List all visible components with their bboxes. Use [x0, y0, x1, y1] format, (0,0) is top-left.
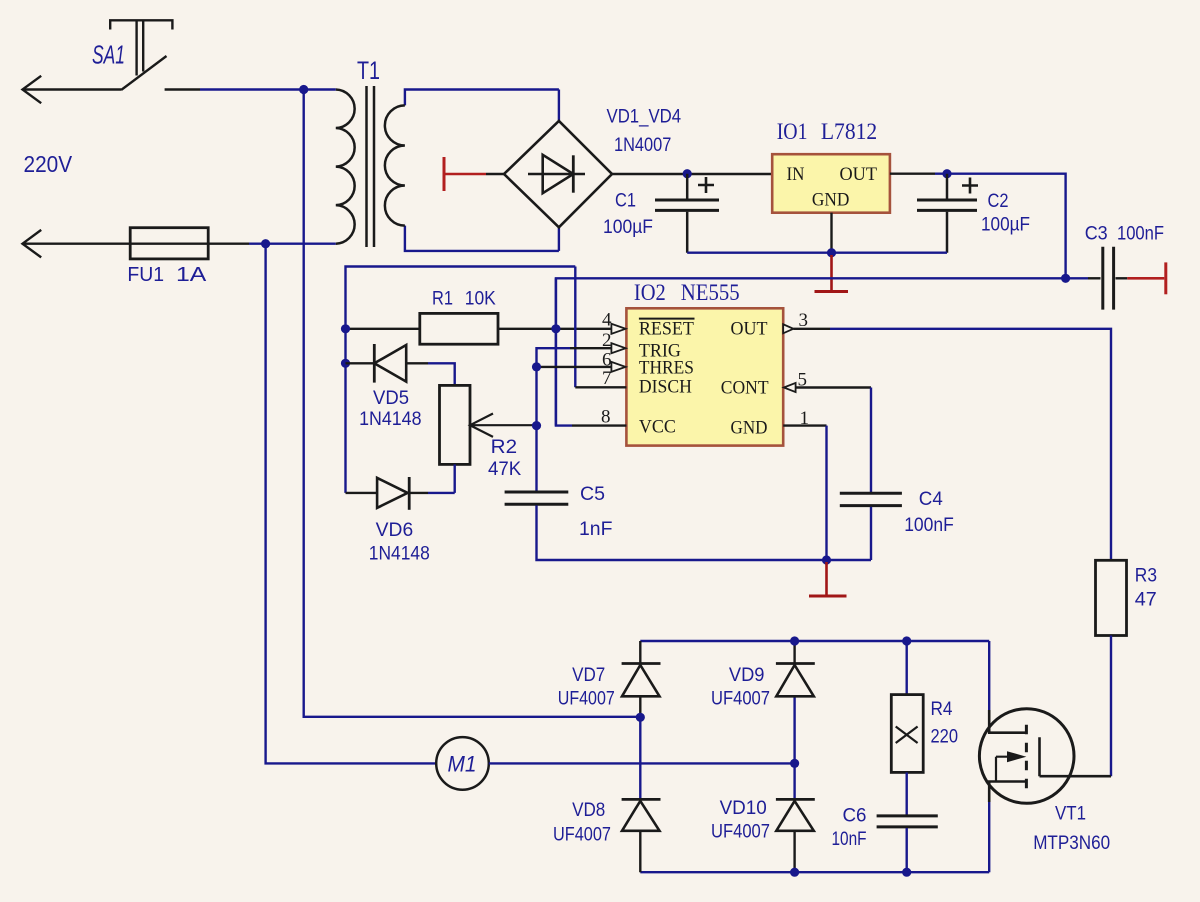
svg-text:DISCH: DISCH — [639, 377, 692, 398]
wire motor bridge top rail — [640, 640, 989, 642]
bridge inner diode wire — [528, 173, 585, 176]
capacitor C4 — [840, 493, 902, 505]
capacitor C1 — [686, 174, 689, 253]
wire VT1 source to bottom rail — [988, 802, 990, 872]
svg-text:100µF: 100µF — [603, 217, 653, 238]
wire vertical live bus — [304, 90, 641, 717]
wire ground rail C1-C2 — [687, 251, 947, 253]
node junction THRES — [532, 362, 541, 371]
wire switch contact — [165, 88, 200, 90]
svg-text:47K: 47K — [488, 459, 522, 480]
node junction AC left leg — [636, 713, 645, 722]
wire DISCH lead — [575, 386, 626, 388]
svg-text:RESET: RESET — [639, 319, 694, 340]
svg-text:GND: GND — [812, 190, 850, 211]
node junction SA1 bus — [299, 85, 308, 94]
svg-text:8: 8 — [601, 407, 611, 428]
svg-text:1nF: 1nF — [579, 519, 613, 540]
svg-text:GND: GND — [731, 418, 768, 439]
potentiometer R2 wiper arrow — [470, 414, 537, 437]
node junction R1 left — [341, 324, 350, 333]
diode VD10 — [776, 798, 815, 801]
wire pin 3 run to R3 — [830, 329, 1111, 561]
wire CONT lead — [796, 386, 871, 388]
node junction pin4/VCC — [551, 324, 560, 333]
ground symbol under 555 rail (red) — [825, 562, 828, 595]
resistor R3 — [1096, 560, 1127, 635]
node junction VD5 left — [341, 359, 350, 368]
svg-text:R4: R4 — [931, 699, 953, 720]
svg-text:OUT: OUT — [731, 319, 768, 340]
svg-text:IO1: IO1 — [777, 119, 808, 144]
svg-text:100nF: 100nF — [1117, 224, 1164, 245]
svg-text:IO2: IO2 — [634, 280, 666, 305]
bridge rectifier VD1_VD4 diamond — [504, 121, 612, 227]
wire TRIG jog — [537, 348, 571, 491]
svg-text:7: 7 — [602, 368, 612, 389]
svg-text:THRES: THRES — [639, 358, 694, 379]
node junction C2 — [942, 169, 951, 178]
svg-text:T1: T1 — [357, 57, 380, 85]
mains arrow left top — [23, 76, 42, 103]
pin 4 arrow — [611, 324, 625, 334]
capacitor C5 — [505, 492, 569, 504]
svg-text:47: 47 — [1135, 590, 1157, 611]
switch SA1 actuator bracket — [110, 20, 172, 75]
wire motor to right leg — [489, 762, 795, 764]
wire fuse to transformer — [249, 242, 336, 244]
regulator IO1 box — [772, 154, 890, 213]
node junction C3 — [1061, 274, 1070, 283]
node junction wiper — [532, 421, 541, 430]
diode VD8 — [622, 798, 661, 801]
svg-text:C2: C2 — [988, 191, 1009, 212]
svg-text:FU1: FU1 — [127, 264, 164, 286]
node junction bottom rail VD10 — [790, 868, 799, 877]
wire R1 right lead to pin 4 — [498, 328, 612, 330]
svg-text:IN: IN — [787, 164, 805, 185]
wire bridge bottom lead — [558, 227, 560, 251]
svg-text:C4: C4 — [919, 489, 943, 510]
transistor VT1 channel (dashed) — [1025, 725, 1028, 789]
ground terminal right of C3 (red) — [1127, 277, 1164, 280]
wire R4 top lead — [906, 641, 908, 695]
transformer T1 primary winding — [336, 90, 355, 244]
node junction top rail VD9 — [790, 636, 799, 645]
svg-text:C5: C5 — [580, 484, 605, 505]
svg-text:220: 220 — [931, 727, 959, 748]
wire TRIG lead — [570, 347, 612, 349]
svg-text:R3: R3 — [1135, 566, 1157, 587]
wire OUT to C3 corner — [935, 174, 1066, 279]
wire R2 bottom to VD6 — [428, 464, 455, 493]
transistor VT1 circle — [979, 709, 1074, 804]
pin 6 arrow — [611, 362, 625, 372]
svg-text:SA1: SA1 — [92, 40, 125, 70]
node junction M1 right leg — [790, 759, 799, 768]
wire VT1 drain from top rail — [988, 641, 990, 710]
ground symbol under IO1 (red) — [830, 255, 833, 291]
wire bridge to C1/IN — [612, 173, 772, 175]
svg-text:10K: 10K — [465, 288, 496, 310]
svg-text:1N4007: 1N4007 — [614, 135, 671, 156]
capacitor C3 — [1088, 277, 1101, 279]
svg-text:100µF: 100µF — [981, 215, 1030, 236]
svg-text:VD5: VD5 — [373, 388, 409, 409]
svg-text:VD7: VD7 — [572, 665, 605, 686]
wire DISCH drop — [574, 267, 576, 388]
ground terminal at bridge left (red) — [443, 157, 446, 191]
svg-text:C1: C1 — [615, 191, 636, 212]
node junction top rail R4 — [902, 636, 911, 645]
svg-text:CONT: CONT — [721, 378, 769, 399]
svg-text:UF4007: UF4007 — [553, 825, 611, 846]
node junction bottom rail C6 — [902, 868, 911, 877]
switch SA1 lever — [121, 56, 166, 90]
svg-text:R1: R1 — [432, 288, 453, 310]
resistor R1 — [420, 313, 498, 344]
wire pin1 GND lead — [783, 424, 826, 426]
wire C4 to ground rail — [870, 507, 872, 560]
svg-text:C6: C6 — [843, 806, 867, 827]
fuse FU1 body — [130, 228, 208, 259]
wire left leg segments — [639, 641, 641, 872]
pin 3 arrow — [783, 324, 793, 333]
mains arrow left bottom — [23, 230, 42, 258]
diode VD9 — [776, 662, 815, 665]
svg-text:1A: 1A — [176, 264, 207, 286]
svg-text:L7812: L7812 — [821, 119, 877, 144]
wire +12V rail — [556, 278, 1088, 425]
transformer T1 core — [367, 86, 375, 247]
svg-text:UF4007: UF4007 — [558, 689, 615, 710]
wire OUT lead — [890, 172, 935, 174]
pin 5 arrow — [784, 383, 796, 392]
svg-text:1N4148: 1N4148 — [369, 544, 430, 565]
svg-text:M1: M1 — [448, 752, 477, 777]
svg-text:VD1_VD4: VD1_VD4 — [607, 107, 682, 128]
transistor VT1 gate — [1040, 737, 1112, 776]
svg-text:VT1: VT1 — [1055, 804, 1086, 825]
wire DISCH rail — [346, 267, 576, 493]
svg-text:OUT: OUT — [840, 164, 878, 185]
potentiometer R2 body — [440, 385, 471, 464]
wire THRES lead — [537, 366, 612, 368]
svg-text:C3: C3 — [1085, 224, 1108, 245]
wire VCC drop — [555, 278, 557, 425]
wire switch to transformer — [200, 88, 336, 90]
bridge inner diode cathode bar — [572, 155, 575, 192]
svg-text:1N4148: 1N4148 — [359, 409, 421, 430]
wire pin1 drop — [825, 426, 827, 560]
motor M1 circle — [436, 737, 489, 790]
wire mains neutral through fuse — [23, 242, 250, 244]
transistor VT1 drain lead — [989, 710, 1026, 733]
wire C5 to ground rail — [537, 505, 872, 560]
node junction C1 — [683, 169, 692, 178]
transistor VT1 substrate arrow — [996, 757, 1022, 782]
wire VCC lead — [572, 424, 626, 426]
wire IO1 GND lead — [830, 213, 832, 253]
wire VD5 to R2 — [428, 363, 455, 385]
capacitor C2 — [946, 174, 949, 253]
wire R3 to gate — [1110, 636, 1112, 777]
diode VD6 — [346, 492, 429, 494]
pin 2 arrow — [611, 343, 625, 353]
capacitor C6 — [877, 816, 938, 827]
bridge inner diode triangle — [543, 155, 574, 193]
svg-text:UF4007: UF4007 — [711, 822, 770, 843]
diode VD7 — [622, 662, 661, 665]
svg-text:220V: 220V — [24, 151, 73, 177]
wire mains live to switch — [23, 88, 122, 90]
svg-text:VCC: VCC — [639, 417, 676, 438]
node junction 555 ground rail — [822, 555, 831, 564]
svg-text:VD9: VD9 — [729, 665, 765, 686]
svg-text:NE555: NE555 — [681, 280, 740, 305]
wire R1 left lead — [346, 328, 420, 330]
node junction GND rail — [827, 248, 836, 257]
wire motor bridge bottom rail — [640, 871, 989, 873]
resistor R4 with cross — [891, 695, 923, 773]
svg-text:VD6: VD6 — [376, 520, 414, 541]
svg-text:VD10: VD10 — [720, 798, 767, 819]
svg-text:100nF: 100nF — [904, 515, 954, 536]
timer IO2 box — [626, 308, 783, 445]
wire vertical neutral bus to motor — [266, 244, 437, 764]
svg-text:R2: R2 — [491, 437, 517, 458]
wire CONT drop to C4 — [870, 388, 872, 493]
svg-text:VD8: VD8 — [572, 800, 605, 821]
transistor VT1 source lead — [989, 782, 1026, 803]
svg-text:UF4007: UF4007 — [711, 689, 770, 710]
node junction fuse bus — [261, 239, 270, 248]
wire right leg segments — [793, 641, 795, 872]
wire R4 to C6 — [906, 772, 908, 815]
diode VD5 — [346, 362, 429, 364]
wire pin 3 OUT lead — [793, 328, 830, 330]
svg-text:10nF: 10nF — [832, 829, 867, 850]
svg-text:MTP3N60: MTP3N60 — [1033, 833, 1110, 854]
wire bridge top lead — [558, 90, 560, 121]
transformer T1 secondary winding and rails to bridge — [405, 90, 559, 251]
wire C6 to bottom rail — [906, 828, 908, 872]
